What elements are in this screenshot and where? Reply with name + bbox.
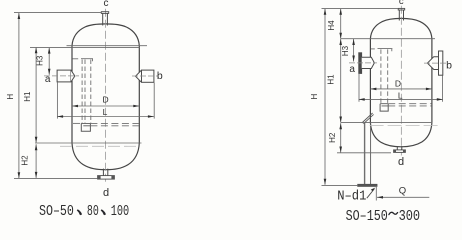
support leg base plate [358, 184, 378, 186]
svg-text:a: a [349, 64, 355, 75]
support leg brace [362, 113, 374, 124]
svg-text:b: b [446, 60, 452, 72]
svg-text:c: c [399, 0, 404, 7]
svg-text:80: 80 [87, 203, 99, 220]
internal dip pipe dashed walls [82, 60, 91, 124]
svg-text:c: c [104, 0, 109, 9]
svg-text:H: H [6, 94, 15, 100]
extension line L right (from nozzle b flange) [442, 76, 444, 102]
dimension H1 line [340, 39, 342, 123]
extension line L left (from nozzle a flange face) [56, 82, 58, 118]
top dished head [370, 18, 432, 38]
extension line d flange level [337, 152, 391, 154]
svg-text:b: b [157, 70, 163, 82]
title left "SO-50、80、100" [39, 203, 129, 220]
svg-text:a: a [45, 74, 51, 85]
svg-text:L: L [103, 107, 108, 117]
svg-text:SO–150: SO–150 [346, 208, 388, 225]
vessel vertical centerline [400, 6, 402, 156]
faint lower seam line [60, 145, 139, 147]
nozzle b flange plate [439, 51, 443, 75]
ideographic comma 1 [77, 210, 82, 216]
seal pot rim [81, 123, 90, 125]
svg-text:Q: Q [399, 186, 406, 197]
extension line base [14, 177, 98, 179]
internal dip pipe cap [378, 49, 393, 52]
dimension Q line [377, 196, 429, 198]
vessel shell right wall [431, 39, 433, 123]
svg-text:D: D [395, 78, 401, 88]
vessel shell cylinder right wall [138, 46, 140, 143]
extension line L right (from nozzle b flange face) [153, 83, 155, 119]
seal pot rim [380, 104, 388, 106]
svg-text:300: 300 [399, 208, 421, 225]
top dished head [72, 24, 139, 46]
vessel vertical centerline [105, 9, 107, 184]
svg-text:N–d1: N–d1 [337, 189, 366, 204]
nozzle a flange plate [359, 53, 362, 74]
bottom dished head [72, 143, 139, 170]
svg-text:d: d [398, 156, 404, 168]
nozzle c flange cap [101, 12, 108, 14]
internal dip pipe dashed walls [381, 49, 388, 103]
extension line top (H/H4) [322, 8, 399, 10]
extension line top tangent [67, 45, 148, 47]
nozzle d flange [394, 150, 406, 153]
nozzle d flange end caps [394, 150, 396, 153]
svg-text:H1: H1 [23, 91, 32, 102]
internal seal pot [81, 123, 90, 131]
svg-text:D: D [103, 94, 109, 104]
fullwidth tilde [389, 212, 398, 214]
extension line bottom tangent [35, 142, 142, 144]
title right "SO-150～300" [346, 208, 421, 225]
bottom dished head [370, 123, 432, 147]
nozzle d pipe [397, 146, 402, 150]
nozzle a hub and wedge [362, 57, 375, 68]
vessel shell cylinder left wall [71, 46, 73, 143]
nozzle c pipe [103, 13, 108, 25]
internal horizontal dashed pipe lines [388, 104, 431, 106]
extension line base [322, 185, 359, 187]
extension line top (H) [14, 11, 101, 13]
nozzle c pipe [399, 10, 403, 21]
dimension H1 line [35, 47, 37, 142]
svg-text:H3: H3 [341, 45, 350, 56]
svg-text:H4: H4 [327, 20, 336, 31]
dimension D line [72, 105, 139, 107]
svg-text:H1: H1 [327, 74, 336, 85]
support leg channel [364, 123, 366, 184]
svg-text:H: H [310, 93, 319, 99]
internal stub dash at wall [371, 48, 375, 50]
internal seal pot [380, 104, 388, 111]
nozzle d flange [98, 176, 115, 180]
svg-text:100: 100 [111, 203, 129, 220]
nozzle a flange [57, 70, 71, 82]
internal horizontal dashed pipe lines [73, 123, 139, 125]
nozzle b weld neck wedge [136, 70, 142, 82]
svg-text:SO–50: SO–50 [39, 203, 74, 220]
dimension H2 line [35, 144, 37, 178]
dimension H4 line [340, 9, 342, 39]
dimension Q extension line [375, 187, 377, 201]
nozzle b wedge and hub [427, 57, 438, 70]
dimension H line [18, 13, 20, 178]
nozzle b centerline [424, 62, 446, 64]
extension line bottom tangent [341, 122, 432, 124]
vessel shell left wall [369, 39, 371, 123]
extension line top tangent [341, 38, 435, 40]
nozzle b flange [142, 70, 154, 82]
dimension H3 line [48, 48, 50, 75]
dimension L line [359, 98, 443, 100]
internal stub dash at wall [72, 58, 78, 60]
ideographic comma 2 [101, 210, 106, 216]
nozzle d flange end caps [98, 176, 101, 180]
dimension D line [370, 88, 432, 90]
nozzle a weld neck wedge [71, 70, 75, 82]
dimension H2 line [340, 123, 342, 152]
nozzle a centerline [349, 62, 377, 64]
nozzle b centerline [132, 75, 158, 77]
internal dip pipe cap [81, 59, 93, 62]
dimension H3 line [353, 39, 355, 62]
extension line L left (from nozzle a flange) [358, 74, 360, 102]
svg-text:d: d [103, 187, 109, 199]
svg-text:H2: H2 [328, 132, 337, 143]
nozzle c flange cap [398, 8, 405, 10]
svg-text:H3: H3 [35, 55, 44, 66]
nozzle a centerline [44, 75, 79, 77]
dimension H line [324, 9, 326, 185]
svg-text:H2: H2 [20, 155, 29, 166]
extension line H1/H3 top [30, 47, 140, 49]
svg-text:L: L [398, 91, 403, 101]
faint lower seam line [370, 124, 439, 126]
dimension L line [57, 116, 154, 118]
nozzle d pipe [103, 169, 107, 176]
